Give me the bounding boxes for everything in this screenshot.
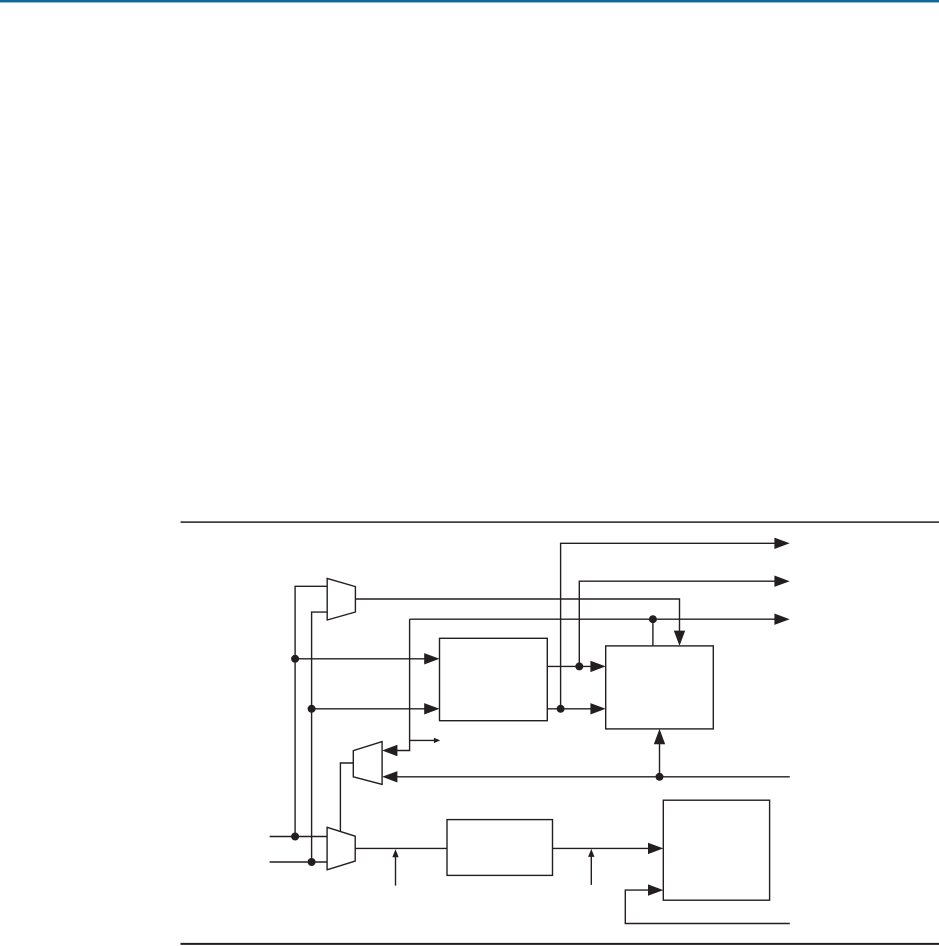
arrowhead into mux M2 input 2	[382, 771, 397, 782]
arrowhead into block B2 top	[674, 631, 685, 646]
wire output A1 from node J3	[561, 543, 775, 709]
wire mux M1 output to block B2 top	[355, 599, 679, 631]
junction J8	[308, 858, 316, 866]
wire node J6 up to block B2 bottom	[659, 744, 661, 777]
junction J3	[557, 705, 565, 713]
block B3	[447, 820, 553, 876]
wire small branch arrow stem	[410, 739, 435, 741]
junction J6	[656, 773, 664, 781]
arrowhead into block B1 input 2	[424, 703, 439, 714]
wire small up arrow 2 stem	[590, 855, 592, 885]
arrowhead into block B2 input 2	[590, 703, 605, 714]
arrowhead into block B1 input 1	[424, 653, 439, 664]
arrowhead into block B4 input 1	[648, 843, 663, 854]
wire mux M2 output down to mux M3 top	[340, 763, 353, 832]
small arrowhead up 2	[588, 849, 594, 857]
wire block B1 output 2 to block B2 input 2	[547, 708, 591, 710]
wire mux M3 input 1 stub	[270, 836, 328, 838]
wire A3 down to mux M2 input 1	[397, 619, 410, 750]
arrowhead into block B2 bottom	[654, 729, 665, 744]
mux M3	[327, 827, 355, 870]
mux M2	[353, 742, 382, 785]
wire output A3 horizontal	[410, 618, 775, 620]
wire feedback loop into block B4 input 2	[625, 890, 790, 923]
wire long feedback into mux M2 input 2	[397, 776, 790, 778]
arrowhead output A1	[774, 538, 789, 549]
junction J5	[649, 615, 657, 623]
block B4	[663, 800, 769, 900]
arrowhead into block B2 input 1	[590, 661, 605, 672]
junction J7	[291, 833, 299, 841]
header blue bar	[0, 0, 939, 3]
arrowhead into mux M2 input 1	[382, 745, 397, 756]
arrowhead into block B4 input 2	[648, 884, 663, 895]
junction J1	[291, 655, 299, 663]
wire net V1 vertical with mux M1 input 1	[295, 586, 327, 836]
header rule	[181, 521, 939, 523]
wire output A2 from node J4	[579, 581, 775, 666]
wire node J1 to block B1 input 1	[295, 658, 425, 660]
wire small up arrow 1 stem	[395, 856, 397, 886]
wire net V2 vertical with mux M1 input 2	[312, 612, 328, 862]
small arrowhead branch right	[434, 738, 440, 743]
wire node J2 to block B1 input 2	[312, 708, 425, 710]
footer rule	[181, 943, 939, 945]
wire block B3 output to block B4 input 1	[553, 847, 649, 849]
wire mux M3 output to block B3	[355, 847, 447, 849]
block B2	[606, 646, 714, 729]
junction J4	[575, 662, 583, 670]
arrowhead output A2	[774, 576, 789, 587]
arrowhead output A3	[774, 614, 789, 625]
wire mux M3 input 2 stub	[270, 861, 328, 863]
mux M1	[327, 578, 355, 620]
block B1	[440, 638, 548, 720]
wire block B1 output 1 to block B2 input 1	[547, 665, 591, 667]
wire A3 drop to block B2 top	[652, 619, 654, 646]
junction J2	[308, 705, 316, 713]
small arrowhead up 1	[392, 849, 398, 857]
